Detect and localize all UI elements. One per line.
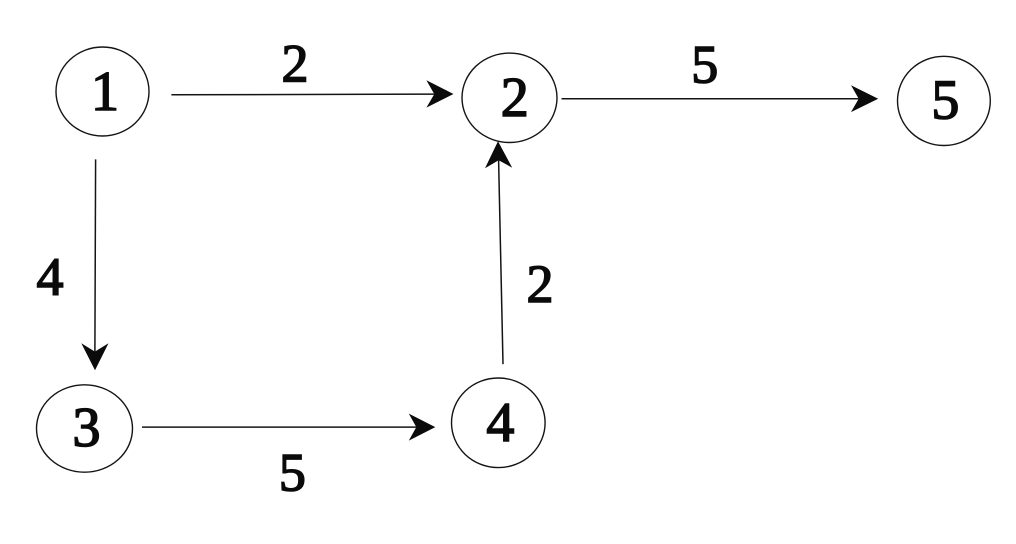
svg-text:2: 2 xyxy=(527,254,554,314)
edge 1->2 arrowhead xyxy=(426,80,453,107)
svg-text:5: 5 xyxy=(279,442,306,502)
svg-text:4: 4 xyxy=(486,392,514,454)
node 1 xyxy=(56,47,149,136)
edge 4->2 arrowhead xyxy=(485,141,512,168)
svg-text:5: 5 xyxy=(691,34,718,94)
svg-text:4: 4 xyxy=(37,247,64,307)
svg-text:2: 2 xyxy=(501,67,529,129)
edge 1->3 wire xyxy=(94,159,97,351)
svg-text:5: 5 xyxy=(931,70,959,132)
node 2 xyxy=(462,53,557,142)
edge 4->2 wire xyxy=(499,160,503,364)
node 4 xyxy=(452,378,546,468)
edge 3->4 wire xyxy=(142,426,416,428)
edge 2->5 arrowhead xyxy=(851,85,878,112)
svg-text:3: 3 xyxy=(73,397,101,459)
edge 2->5 wire xyxy=(562,98,859,100)
edge 1->3 arrowhead xyxy=(81,343,108,370)
edge 3->4 arrowhead xyxy=(409,414,436,441)
svg-text:2: 2 xyxy=(282,33,309,93)
svg-text:1: 1 xyxy=(91,61,119,123)
edge 1->2 wire xyxy=(171,93,434,96)
node 5 xyxy=(898,56,991,145)
node 3 xyxy=(37,385,133,472)
